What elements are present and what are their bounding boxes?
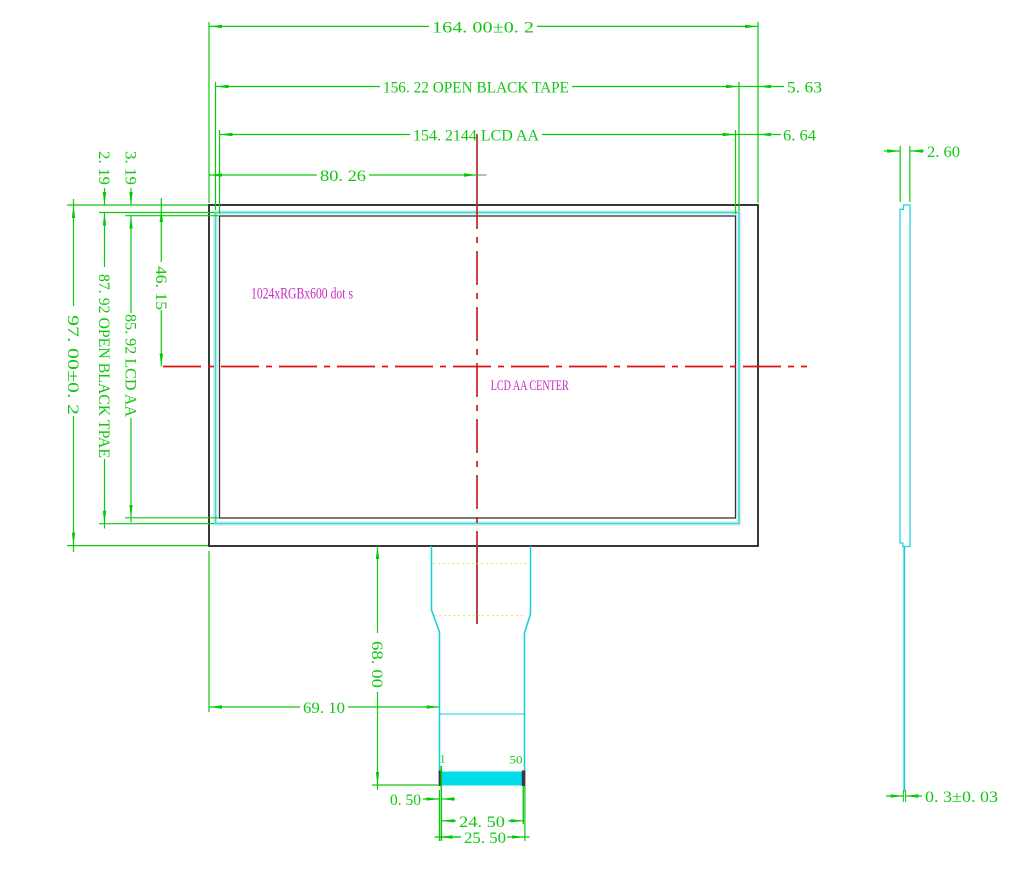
svg-text:2. 60: 2. 60: [927, 144, 960, 161]
connector bar (cyan fill): [440, 772, 524, 786]
svg-text:0. 3±0. 03: 0. 3±0. 03: [925, 789, 998, 806]
dim 87.92 OPEN BLACK TPAE (vertical): [104, 213, 106, 268]
ext tape-top horizontal: [99, 212, 215, 214]
FPC stiffener line: [440, 713, 525, 715]
ext tape-bottom horizontal: [99, 523, 215, 525]
ext line connector-right: [524, 786, 526, 841]
ext outer-left vertical: [208, 22, 210, 203]
red horizontal center line: [163, 366, 807, 368]
open black tape outline (cyan): [216, 213, 740, 524]
svg-text:24. 50: 24. 50: [459, 814, 505, 831]
ext AA-right vertical: [735, 130, 737, 214]
open black tape outline glow: [216, 213, 740, 524]
ext connector-bottom horizontal: [372, 784, 438, 786]
ext AA-bottom horizontal: [125, 517, 219, 519]
svg-text:1: 1: [440, 752, 446, 766]
LCD AA outline: [220, 216, 736, 518]
svg-text:25. 50: 25. 50: [464, 830, 506, 847]
yellow dotted line upper: [434, 563, 530, 565]
dim 156.22 OPEN BLACK TAPE: [216, 86, 381, 88]
ext outer-left-lower vertical: [208, 551, 210, 712]
ext outer-bottom horizontal: [67, 545, 208, 547]
yellow dotted line lower: [435, 615, 524, 617]
svg-text:97. 00±0. 2: 97. 00±0. 2: [64, 315, 81, 415]
arrow tails: [73, 546, 75, 552]
ext outer-top horizontal: [67, 204, 208, 206]
ext line left of pins: [438, 790, 440, 841]
ext side-left vertical: [899, 146, 901, 202]
FPC left edge: [432, 546, 440, 772]
svg-text:2. 19: 2. 19: [95, 151, 112, 185]
ext tape-right vertical: [738, 82, 740, 211]
svg-text:154. 2144 LCD AA: 154. 2144 LCD AA: [413, 128, 539, 145]
svg-text:68. 00: 68. 00: [368, 641, 385, 688]
svg-text:6. 64: 6. 64: [783, 128, 816, 145]
ext line pin50: [522, 786, 524, 824]
svg-text:50: 50: [510, 753, 523, 767]
ext FPC-thickness verticals: [902, 790, 904, 802]
dim tail past center line: [478, 174, 487, 176]
dim 80.26: [209, 174, 317, 176]
svg-text:46. 15: 46. 15: [152, 266, 169, 310]
svg-text:156. 22 OPEN BLACK TAPE: 156. 22 OPEN BLACK TAPE: [383, 80, 569, 97]
dim 46.15 (vertical): [160, 198, 162, 209]
connector bar left cap: [439, 771, 442, 787]
svg-text:80. 26: 80. 26: [320, 168, 366, 185]
dim 2.19 (small, above): [104, 188, 106, 205]
svg-text:5. 63: 5. 63: [787, 80, 822, 97]
svg-text:LCD AA CENTER: LCD AA CENTER: [491, 378, 569, 394]
dim 3.19 (small, above): [130, 188, 132, 205]
ext tape-left vertical: [215, 82, 217, 210]
dim 85.92 LCD AA (vertical): [130, 216, 132, 313]
side view profile: [900, 205, 910, 547]
svg-text:0. 50: 0. 50: [390, 792, 421, 809]
svg-text:164. 00±0. 2: 164. 00±0. 2: [432, 19, 534, 36]
dim 68.00 (vertical): [377, 546, 379, 633]
red center line below panel: [476, 546, 478, 624]
ext AA-left vertical: [219, 130, 221, 214]
red vertical center line: [476, 134, 478, 205]
ext outer-right vertical: [757, 22, 759, 203]
FPC right edge: [525, 546, 531, 772]
dim 6.64: [736, 134, 759, 136]
svg-text:85. 92 LCD AA: 85. 92 LCD AA: [122, 314, 139, 417]
svg-text:1024xRGBx600 dot s: 1024xRGBx600 dot s: [251, 286, 353, 303]
ext AA-top horizontal: [125, 215, 219, 217]
dim 97.00±0.2 (vertical): [73, 205, 75, 306]
side view FPC line: [903, 547, 905, 792]
ext side-right vertical: [909, 146, 911, 202]
outer module outline: [209, 205, 758, 546]
dim 164.00±0.2: [209, 25, 429, 27]
connector bar right cap: [522, 771, 526, 787]
svg-text:87. 92 OPEN BLACK TPAE: 87. 92 OPEN BLACK TPAE: [95, 274, 112, 458]
svg-text:69. 10: 69. 10: [303, 700, 345, 717]
ext line pin1: [440, 766, 442, 841]
svg-text:3. 19: 3. 19: [122, 151, 139, 185]
dim 154.2144 LCD AA: [220, 134, 411, 136]
dim 5.63: [739, 86, 758, 88]
